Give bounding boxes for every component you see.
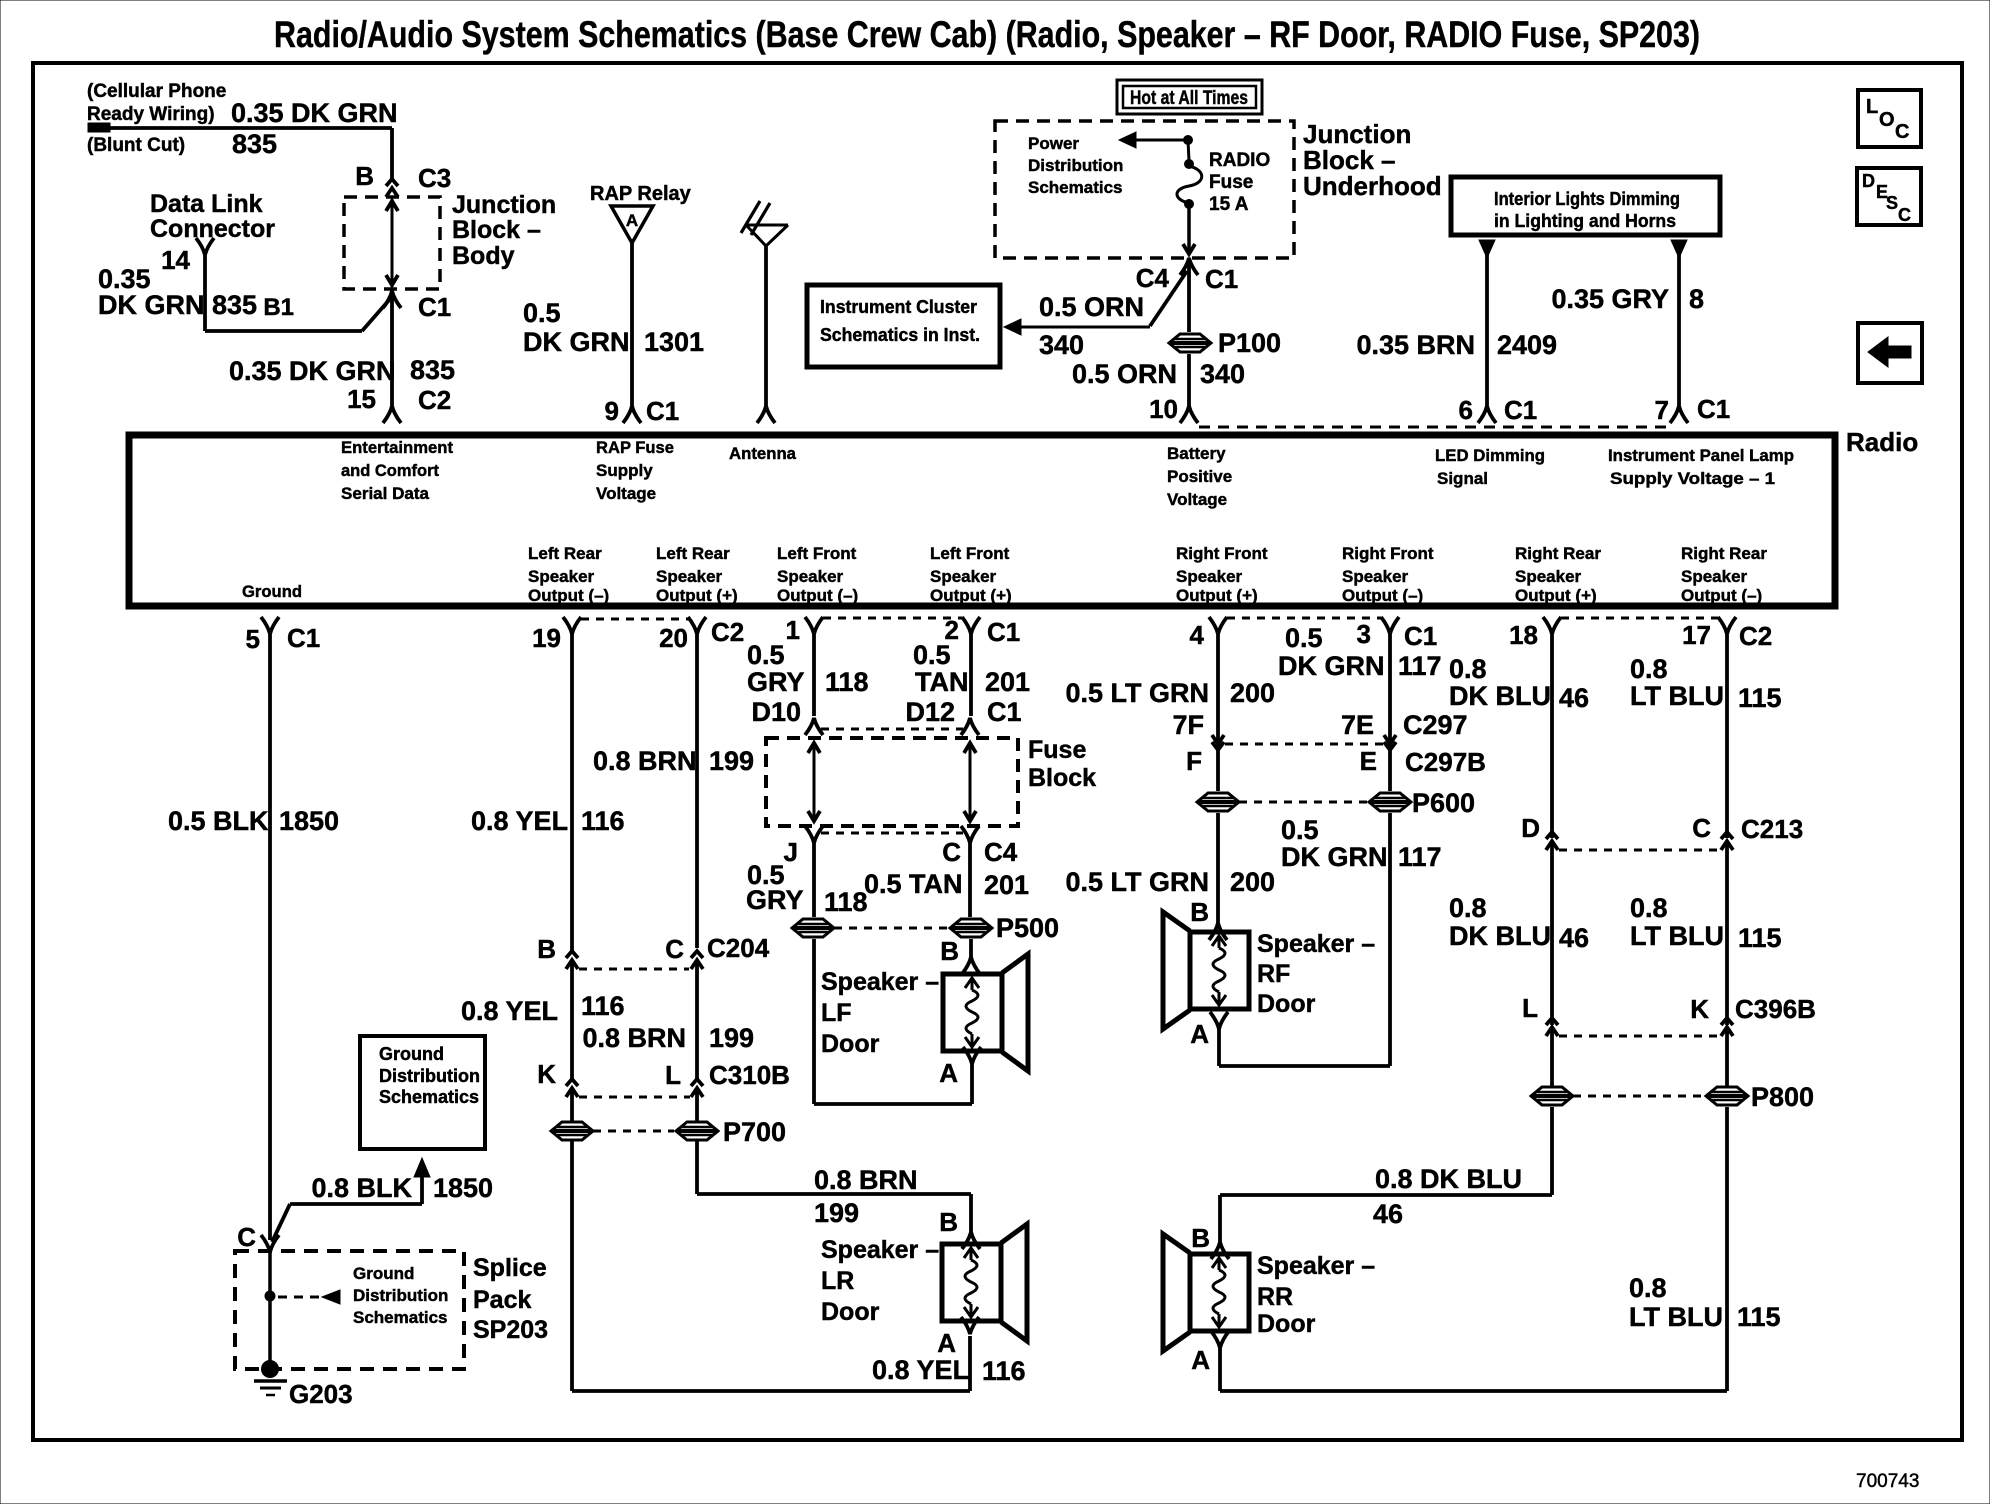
svg-text:(Cellular Phone: (Cellular Phone: [87, 81, 226, 102]
wire 2 to P500: [968, 843, 972, 917]
radio pin 10: [1149, 394, 1198, 424]
svg-text:F: F: [1186, 746, 1202, 776]
radio pin 3 C1: [1357, 617, 1438, 651]
svg-text:15: 15: [347, 384, 376, 414]
speaker RF door pin B: [1190, 897, 1227, 940]
hot at all times box: [1117, 80, 1262, 114]
junction block underhood label: [1303, 119, 1442, 201]
svg-text:D: D: [1862, 171, 1875, 191]
svg-text:C1: C1: [418, 292, 451, 322]
svg-text:0.5 LT GRN: 0.5 LT GRN: [1065, 678, 1209, 708]
wire label 0.5 TAN 201 D12 C1: [905, 640, 1030, 727]
connector D C213: [1521, 813, 1558, 850]
P600 dashed line: [1239, 801, 1368, 804]
C297 dashed line: [1225, 743, 1383, 746]
wire label 0.8 LT BLU 115 (upper): [1630, 654, 1782, 713]
svg-text:6: 6: [1459, 395, 1473, 425]
svg-text:Underhood: Underhood: [1303, 171, 1442, 201]
wire 20 to P700: [695, 1088, 699, 1121]
fuse block dashed box: [766, 738, 1018, 826]
svg-text:Output (+): Output (+): [1515, 586, 1597, 605]
svg-text:Distribution: Distribution: [353, 1286, 448, 1305]
svg-text:Left Rear: Left Rear: [528, 544, 602, 563]
svg-text:Antenna: Antenna: [729, 444, 797, 463]
svg-text:Speaker –: Speaker –: [821, 968, 939, 996]
wire label 0.5 ORN 340 (lower): [1072, 359, 1245, 389]
svg-text:C1: C1: [1697, 394, 1730, 424]
wire 46 pin 18 upper segment: [1550, 634, 1554, 838]
catalog number 700743: [1856, 1471, 1919, 1492]
svg-text:Schematics: Schematics: [353, 1308, 448, 1327]
svg-text:A: A: [626, 211, 638, 230]
wire 835 from B1 to radio pin 15: [390, 291, 394, 406]
connector P800 right: [1706, 1082, 1814, 1112]
svg-text:46: 46: [1559, 923, 1589, 953]
radio pin 1: [786, 615, 823, 645]
svg-text:Distribution: Distribution: [379, 1066, 480, 1086]
wire 19 to P700: [570, 1088, 574, 1121]
wire label 0.8 YEL 116 (bottom): [872, 1355, 1026, 1386]
svg-text:Interior Lights Dimming: Interior Lights Dimming: [1494, 189, 1680, 209]
connector L C310B: [665, 1060, 790, 1097]
connector B C3: [355, 161, 451, 197]
connector L C396B: [1522, 993, 1558, 1036]
svg-text:117: 117: [1398, 651, 1442, 681]
wire 201 pin 2 upper segment: [969, 634, 973, 716]
wire 116 long run to LR speaker A: [572, 1141, 970, 1391]
svg-text:835: 835: [410, 355, 455, 385]
svg-text:0.5 LT GRN: 0.5 LT GRN: [1065, 867, 1209, 897]
radio box: [129, 435, 1835, 606]
svg-text:199: 199: [709, 1023, 754, 1053]
svg-text:Signal: Signal: [1437, 469, 1488, 488]
svg-text:Door: Door: [821, 1298, 880, 1326]
svg-text:20: 20: [659, 623, 688, 653]
svg-text:7E: 7E: [1341, 710, 1374, 740]
svg-text:Output (+): Output (+): [656, 586, 738, 605]
svg-text:1: 1: [786, 615, 800, 645]
svg-text:46: 46: [1559, 683, 1589, 713]
speaker LR door label: [821, 1236, 939, 1326]
wire 1 to P500: [812, 843, 816, 917]
radio pin 19: [532, 617, 581, 653]
connector C C213: [1692, 813, 1803, 850]
svg-text:Speaker: Speaker: [930, 567, 997, 586]
radio label LED dimming signal: [1435, 446, 1545, 488]
wire to instrument cluster arrow: [1004, 271, 1187, 335]
svg-text:L: L: [1866, 96, 1878, 118]
svg-text:Hot at All Times: Hot at All Times: [1130, 88, 1248, 109]
wire label 0.8 YEL 116 (mid): [461, 991, 625, 1026]
svg-text:D12: D12: [905, 697, 955, 727]
wire label 0.8 BRN 199 (upper): [593, 746, 754, 776]
wire 116 pin 19 upper segment: [570, 634, 574, 952]
wire 117 pin 3 upper segment: [1388, 634, 1392, 743]
wire C4 to P100: [1187, 258, 1191, 332]
svg-text:LR: LR: [821, 1267, 854, 1295]
wire label 0.8 LT BLU 115 (mid): [1630, 893, 1782, 953]
radio pin 18: [1509, 617, 1561, 650]
svg-text:C3: C3: [418, 163, 451, 193]
wire 18 mid segment: [1550, 841, 1554, 1025]
speaker RR door: [1163, 1234, 1249, 1351]
svg-text:C2: C2: [711, 617, 744, 647]
radio pin 15 C2: [347, 384, 451, 423]
svg-text:200: 200: [1230, 678, 1275, 708]
data link connector label: [150, 190, 275, 243]
svg-text:J: J: [784, 837, 798, 867]
svg-text:D: D: [1521, 813, 1540, 843]
wire 117 to RF speaker A loop: [1219, 813, 1390, 1066]
svg-text:0.5: 0.5: [1281, 815, 1319, 845]
svg-text:Speaker: Speaker: [656, 567, 723, 586]
svg-text:0.5: 0.5: [913, 640, 951, 670]
svg-text:116: 116: [982, 1356, 1026, 1386]
svg-text:DK GRN: DK GRN: [1278, 651, 1385, 681]
svg-text:GRY: GRY: [746, 885, 804, 915]
svg-text:A: A: [1190, 1019, 1209, 1049]
svg-text:Door: Door: [821, 1030, 880, 1058]
svg-text:201: 201: [984, 870, 1029, 900]
svg-text:116: 116: [581, 991, 625, 1021]
svg-text:LT BLU: LT BLU: [1630, 921, 1724, 951]
ground distribution schematics label (splice): [353, 1264, 448, 1327]
svg-text:P700: P700: [723, 1117, 786, 1147]
wire 200 to RF speaker B: [1216, 813, 1220, 923]
svg-text:Schematics: Schematics: [379, 1087, 479, 1107]
wire label 0.5 GRY 118 (lower): [746, 860, 868, 917]
P800 dashed line: [1573, 1095, 1703, 1098]
svg-text:E: E: [1360, 746, 1377, 776]
svg-text:RF: RF: [1257, 960, 1290, 988]
svg-text:Body: Body: [452, 242, 515, 270]
svg-text:K: K: [1690, 994, 1709, 1024]
wire 46 to RR speaker B: [1220, 1107, 1552, 1242]
svg-text:LED Dimming: LED Dimming: [1435, 446, 1545, 465]
connector P700 right: [676, 1117, 786, 1147]
back arrow box: [1858, 323, 1922, 383]
svg-text:Instrument Cluster: Instrument Cluster: [820, 297, 977, 317]
svg-text:D10: D10: [751, 697, 801, 727]
svg-text:Speaker –: Speaker –: [821, 1236, 939, 1264]
radio label antenna: [729, 444, 797, 463]
RAP relay triangle A: [611, 206, 653, 243]
connector K C396B: [1690, 994, 1816, 1036]
splice pack label: [473, 1254, 548, 1344]
splice pack dashed box: [235, 1251, 464, 1369]
svg-text:C2: C2: [418, 385, 451, 415]
radio pin 5 C1: [246, 617, 321, 654]
svg-text:DK GRN: DK GRN: [98, 290, 205, 320]
svg-text:115: 115: [1738, 923, 1782, 953]
speaker LR door pin A: [937, 1317, 979, 1358]
svg-text:in Lighting and Horns: in Lighting and Horns: [1494, 211, 1676, 231]
svg-text:Right Rear: Right Rear: [1515, 544, 1601, 563]
wire label 0.8 YEL 116 (upper): [471, 806, 625, 836]
wire 1301 RAP relay to radio pin 9: [630, 243, 634, 406]
svg-text:14: 14: [161, 245, 190, 275]
svg-text:Speaker: Speaker: [777, 567, 844, 586]
connector C C4: [942, 826, 1018, 867]
svg-text:Output (–): Output (–): [528, 586, 609, 605]
wire 118 pin 1 upper segment: [812, 634, 816, 716]
wire 199 pin 20 mid segment: [695, 960, 699, 1079]
radio label Left Front speaker output (–): [777, 544, 858, 605]
svg-text:Fuse: Fuse: [1209, 172, 1253, 193]
svg-text:Supply: Supply: [596, 461, 653, 480]
wire 118 to LF speaker A loop: [814, 939, 972, 1104]
svg-text:B: B: [537, 934, 556, 964]
svg-text:0.8 BRN: 0.8 BRN: [582, 1023, 686, 1053]
svg-text:A: A: [937, 1328, 956, 1358]
speaker LF door pin B: [940, 936, 980, 974]
svg-text:15 A: 15 A: [1209, 194, 1249, 215]
svg-text:A: A: [939, 1058, 958, 1088]
radio label Left Front speaker output (+): [930, 544, 1012, 605]
arrow into ground distribution box: [414, 1158, 430, 1204]
svg-text:Fuse: Fuse: [1028, 736, 1086, 764]
svg-text:2409: 2409: [1497, 330, 1557, 360]
svg-text:G203: G203: [289, 1379, 353, 1409]
radio label entertainment and comfort serial data: [341, 438, 453, 503]
svg-text:Right Front: Right Front: [1176, 544, 1268, 563]
wire 17 mid segment: [1725, 841, 1729, 1025]
radio pin 7 C1: [1655, 394, 1731, 425]
svg-text:0.35 GRY: 0.35 GRY: [1551, 284, 1669, 314]
svg-text:4: 4: [1190, 620, 1205, 650]
svg-text:0.35 DK GRN: 0.35 DK GRN: [231, 98, 398, 128]
svg-text:Left Rear: Left Rear: [656, 544, 730, 563]
svg-text:46: 46: [1373, 1199, 1403, 1229]
speaker RR door pin B: [1191, 1223, 1229, 1259]
svg-text:1301: 1301: [644, 327, 704, 357]
svg-text:Speaker –: Speaker –: [1257, 930, 1375, 958]
svg-text:Radio/Audio System Schematics: Radio/Audio System Schematics (Base Crew…: [274, 14, 1700, 55]
wire 199 pin 20 upper segment: [695, 634, 699, 948]
svg-text:C: C: [1895, 121, 1909, 143]
connector C at splice pack: [237, 1222, 279, 1252]
svg-text:C2: C2: [1739, 621, 1772, 651]
wire label 0.35 DK GRN 835 (left): [98, 264, 257, 320]
wire label 0.5 TAN 201 (lower): [864, 869, 1029, 900]
radio label Right Front speaker output (–): [1342, 544, 1434, 605]
svg-text:Voltage: Voltage: [596, 484, 656, 503]
connector B C204: [537, 934, 578, 969]
svg-text:C1: C1: [1205, 264, 1238, 294]
wire 199 to LR speaker B: [697, 1141, 971, 1232]
svg-text:Speaker –: Speaker –: [1257, 1252, 1375, 1280]
svg-text:C1: C1: [287, 623, 320, 653]
speaker RR door pin A: [1191, 1331, 1229, 1375]
antenna symbol: [741, 201, 788, 406]
wire label 0.5 LT GRN 200 (lower): [1065, 867, 1275, 897]
svg-text:0.5 ORN: 0.5 ORN: [1039, 292, 1144, 322]
speaker LF door label: [821, 968, 939, 1058]
svg-text:0.8 BLK: 0.8 BLK: [311, 1173, 412, 1203]
svg-text:9: 9: [605, 396, 619, 426]
svg-text:0.35 DK GRN: 0.35 DK GRN: [229, 356, 396, 386]
svg-text:C: C: [942, 837, 961, 867]
wire label 0.8 DK BLU 46 (mid): [1449, 893, 1589, 953]
interior lights dimming box: [1451, 177, 1720, 235]
svg-text:DK BLU: DK BLU: [1449, 921, 1551, 951]
wire 17 to P800: [1725, 1027, 1729, 1086]
C310B dashed line: [579, 1096, 690, 1099]
junction block body label: [452, 191, 556, 270]
svg-text:C: C: [665, 934, 684, 964]
svg-text:Pack: Pack: [473, 1286, 531, 1314]
svg-text:116: 116: [581, 806, 625, 836]
svg-text:LT BLU: LT BLU: [1630, 681, 1724, 711]
title: [274, 14, 1700, 55]
svg-text:Ground: Ground: [242, 582, 302, 601]
connector P500 left: [792, 919, 834, 937]
svg-text:0.8: 0.8: [1449, 654, 1487, 684]
svg-text:Speaker: Speaker: [1342, 567, 1409, 586]
svg-text:P500: P500: [996, 913, 1059, 943]
pin pair dashed lines: [581, 618, 1718, 619]
svg-text:Entertainment: Entertainment: [341, 438, 453, 457]
C213 dashed line: [1559, 849, 1719, 852]
svg-text:C396B: C396B: [1735, 994, 1816, 1024]
radio label ground: [242, 582, 302, 601]
wire label 0.8 BRN 199 (mid): [582, 1023, 754, 1053]
radio label battery positive voltage: [1167, 444, 1232, 509]
svg-text:340: 340: [1039, 330, 1084, 360]
svg-text:0.5 BLK: 0.5 BLK: [168, 806, 269, 836]
connector P100: [1169, 328, 1281, 358]
wire label 0.5 ORN 340 (upper): [1039, 292, 1144, 360]
svg-text:TAN: TAN: [915, 667, 969, 697]
svg-text:C213: C213: [1741, 814, 1803, 844]
junction block body dashed box: [344, 197, 440, 289]
svg-text:B: B: [1190, 897, 1209, 927]
svg-text:LT BLU: LT BLU: [1629, 1302, 1723, 1332]
svg-text:K: K: [537, 1059, 556, 1089]
svg-text:Voltage: Voltage: [1167, 490, 1227, 509]
svg-text:Battery: Battery: [1167, 444, 1226, 463]
C204 dashed line: [579, 968, 689, 971]
wire fuse to C4 with arrow: [1183, 204, 1195, 254]
svg-text:835: 835: [232, 129, 277, 159]
instrument cluster schematics box: [807, 285, 1000, 367]
svg-text:B: B: [940, 936, 959, 966]
svg-text:Distribution: Distribution: [1028, 156, 1123, 175]
svg-text:Left Front: Left Front: [930, 544, 1010, 563]
svg-text:Positive: Positive: [1167, 467, 1232, 486]
RADIO fuse 15A: [1177, 140, 1270, 215]
speaker LR door: [942, 1224, 1027, 1341]
svg-text:201: 201: [985, 667, 1030, 697]
svg-text:P800: P800: [1751, 1082, 1814, 1112]
wire label 0.5 LT GRN 200 7F (upper): [1065, 678, 1275, 740]
cellular phone ready wiring label: [87, 81, 226, 156]
svg-text:Speaker: Speaker: [1515, 567, 1582, 586]
svg-text:P600: P600: [1412, 788, 1475, 818]
svg-text:700743: 700743: [1856, 1471, 1919, 1492]
svg-text:Door: Door: [1257, 990, 1316, 1018]
svg-text:Ready Wiring): Ready Wiring): [87, 104, 215, 125]
svg-text:Radio: Radio: [1846, 427, 1918, 457]
svg-text:B: B: [1191, 1223, 1210, 1253]
svg-text:Speaker: Speaker: [1176, 567, 1243, 586]
svg-text:199: 199: [814, 1198, 859, 1228]
svg-text:340: 340: [1200, 359, 1245, 389]
junction block body pass-through wire: [386, 199, 398, 287]
svg-text:C: C: [1898, 205, 1911, 225]
svg-text:0.8: 0.8: [1630, 654, 1668, 684]
speaker RF door pin A: [1190, 1012, 1228, 1049]
radio label RAP fuse supply voltage: [596, 438, 674, 503]
svg-text:L: L: [665, 1060, 681, 1090]
svg-text:0.8 YEL: 0.8 YEL: [461, 996, 558, 1026]
svg-text:0.5: 0.5: [747, 640, 785, 670]
svg-text:3: 3: [1357, 619, 1371, 649]
svg-text:8: 8: [1689, 284, 1704, 314]
wire 835 from data link to B1: [205, 255, 390, 331]
wire label 0.5 BLK 1850: [168, 806, 339, 836]
svg-text:C297B: C297B: [1405, 747, 1486, 777]
wire P100 to radio pin 10: [1187, 354, 1191, 406]
svg-text:DK BLU: DK BLU: [1449, 681, 1551, 711]
wire label 0.8 BLK 1850: [311, 1173, 493, 1203]
svg-text:(Blunt Cut): (Blunt Cut): [87, 135, 185, 156]
connector D12 C1: [961, 718, 979, 735]
svg-text:0.8: 0.8: [1630, 893, 1668, 923]
connector K C310B: [537, 1059, 578, 1097]
ground wire 1850: [268, 634, 272, 1240]
ground distribution schematics box: [360, 1036, 485, 1149]
blunt cut stub: [88, 123, 110, 132]
speaker RR door label: [1257, 1252, 1375, 1338]
svg-text:Block –: Block –: [452, 216, 541, 244]
svg-text:S: S: [1886, 193, 1898, 213]
radio pin 4: [1190, 617, 1227, 650]
svg-text:0.5: 0.5: [523, 298, 561, 328]
connector P600 left: [1197, 793, 1239, 811]
svg-text:DK GRN: DK GRN: [1281, 842, 1388, 872]
svg-text:B: B: [355, 161, 374, 191]
svg-text:Output (–): Output (–): [1681, 586, 1762, 605]
svg-text:Output (+): Output (+): [930, 586, 1012, 605]
connector P700 left: [551, 1122, 593, 1140]
svg-text:RAP Relay: RAP Relay: [590, 183, 692, 205]
wire 4 to P600: [1216, 750, 1220, 791]
svg-text:B1: B1: [263, 294, 294, 321]
connector 7F F C297: [1186, 735, 1224, 776]
svg-text:C204: C204: [707, 933, 770, 963]
svg-text:C4: C4: [984, 837, 1018, 867]
svg-text:0.8: 0.8: [1449, 893, 1487, 923]
radio label: [1846, 427, 1918, 457]
svg-text:RR: RR: [1257, 1283, 1293, 1311]
svg-text:Left Front: Left Front: [777, 544, 857, 563]
radio pin 9 C1: [605, 396, 680, 426]
svg-text:0.8 BRN: 0.8 BRN: [593, 746, 697, 776]
svg-text:P100: P100: [1218, 328, 1281, 358]
wire 115 pin 17 upper segment: [1725, 634, 1729, 838]
svg-text:Speaker: Speaker: [528, 567, 595, 586]
wire 116 pin 19 mid segment: [570, 960, 574, 1079]
svg-text:RAP Fuse: RAP Fuse: [596, 438, 674, 457]
radio label Left Rear speaker output (–): [528, 544, 609, 605]
svg-text:SP203: SP203: [473, 1316, 548, 1344]
wire label 0.35 DK GRN 835 (mid): [229, 355, 455, 386]
P700 dashed line: [593, 1130, 674, 1133]
svg-text:17: 17: [1682, 620, 1711, 650]
radio antenna pin: [757, 406, 775, 423]
svg-text:200: 200: [1230, 867, 1275, 897]
